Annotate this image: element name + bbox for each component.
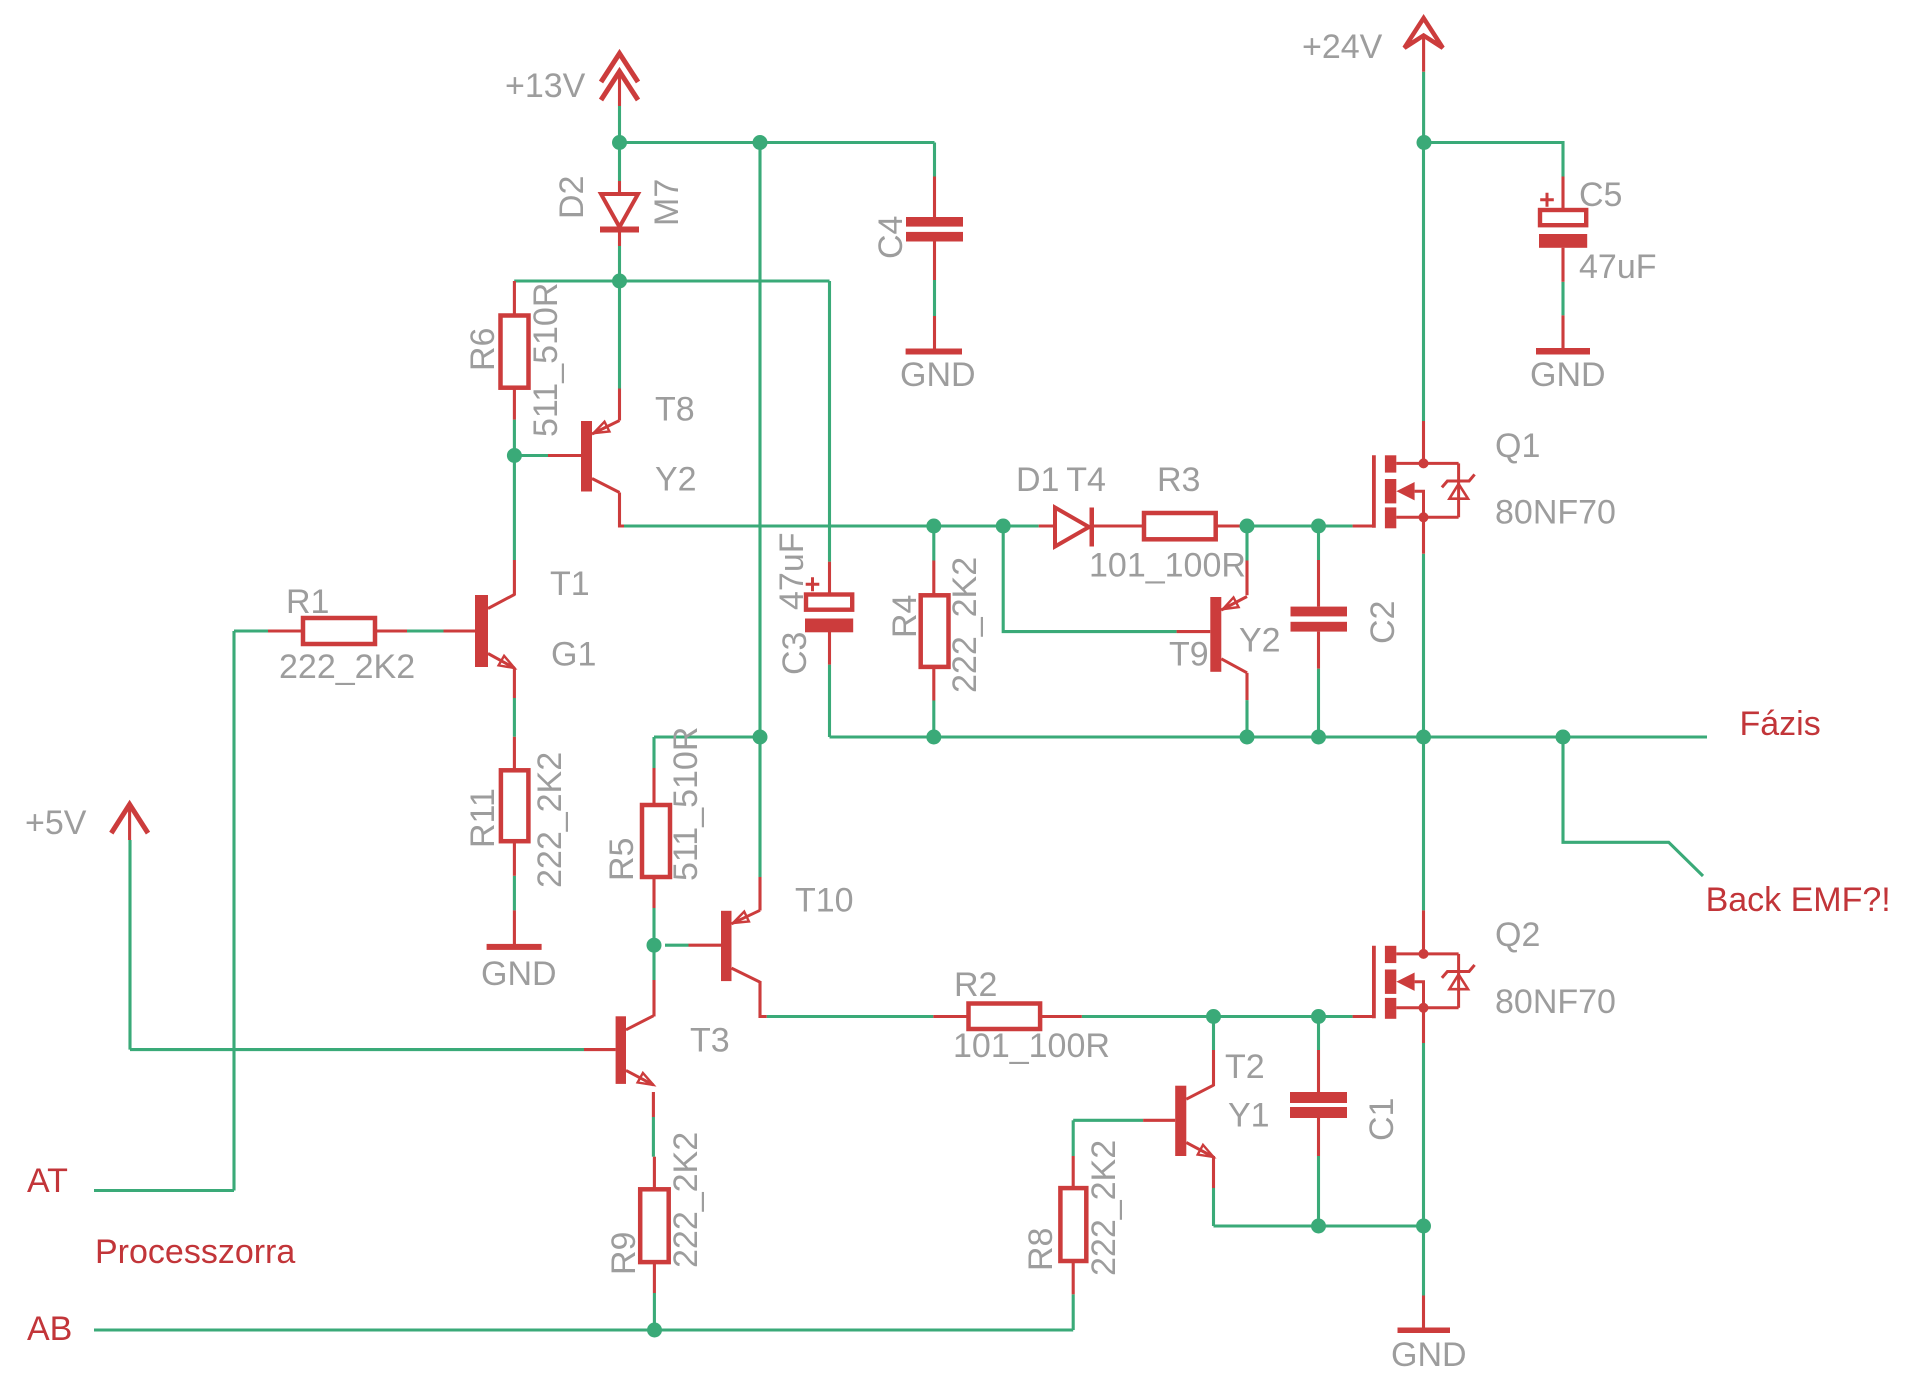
- svg-text:G1: G1: [551, 636, 596, 674]
- pin +13V arrow tail: [618, 72, 621, 106]
- pin D1 anode: [1039, 524, 1055, 527]
- mosfet Q2 (80NF70): [1372, 946, 1376, 1019]
- resistor R4: [921, 595, 949, 667]
- ground bottom (Q2 source): [1398, 1328, 1451, 1334]
- wire T3 emitter: [652, 1117, 655, 1157]
- wire T9 emitter: [1245, 526, 1248, 561]
- wire gate drive Q1 left: [624, 524, 1039, 527]
- wire C2 bottom: [1317, 669, 1320, 737]
- svg-text:222_2K2: 222_2K2: [279, 648, 415, 686]
- capacitor C4: [906, 217, 963, 227]
- svg-text:Y1: Y1: [1228, 1096, 1270, 1134]
- pin C2 bottom: [1317, 632, 1320, 669]
- wire R4 bottom: [932, 701, 935, 738]
- pin Q1 source: [1422, 517, 1425, 553]
- pin Q2 drain: [1422, 910, 1425, 954]
- capacitor C1: [1290, 1092, 1347, 1103]
- capacitor C2: [1291, 607, 1348, 617]
- wire +5V tail: [128, 840, 131, 1050]
- wire +13V supply tail: [618, 106, 621, 143]
- wire Q1 source drop: [1422, 554, 1425, 737]
- pin R11 top: [513, 737, 516, 771]
- pin Q1 gate: [1353, 524, 1372, 527]
- pin T8 base: [548, 454, 581, 457]
- pin C1 bottom: [1317, 1118, 1320, 1156]
- svg-text:511_510R: 511_510R: [667, 727, 705, 881]
- svg-text:222_2K2: 222_2K2: [946, 557, 984, 693]
- svg-text:+13V: +13V: [505, 67, 586, 105]
- ground under C5: [1536, 348, 1590, 355]
- transistor T2 (Y1) NPN: [1175, 1086, 1186, 1156]
- ground under C4: [906, 349, 962, 355]
- supply +24V arrow: [1404, 18, 1442, 48]
- wire AT riser to R1: [232, 631, 235, 1191]
- svg-text:C1: C1: [1363, 1098, 1401, 1141]
- pin T2 emitter: [1212, 1156, 1215, 1188]
- wire gate drive Q2 right: [1082, 1015, 1353, 1018]
- wire +5V to T3 base: [130, 1048, 584, 1051]
- pin T9 emitter: [1245, 561, 1248, 596]
- wire C2 top: [1317, 526, 1320, 560]
- svg-text:R11: R11: [464, 788, 502, 848]
- pin R6 top: [513, 281, 516, 316]
- svg-text:222_2K2: 222_2K2: [667, 1132, 705, 1268]
- wire Q2 drain riser: [1422, 737, 1425, 910]
- svg-text:80NF70: 80NF70: [1495, 983, 1616, 1021]
- wire bootstrap node: [514, 279, 829, 282]
- svg-text:47uF: 47uF: [1579, 248, 1657, 286]
- pin T8 emitter: [618, 389, 621, 421]
- wire R5 bottom to T3 collector: [652, 908, 655, 980]
- pin R6 bottom: [513, 388, 516, 420]
- svg-text:AT: AT: [27, 1162, 68, 1200]
- svg-text:R9: R9: [605, 1232, 643, 1275]
- pin R5 bottom: [652, 877, 655, 908]
- svg-text:511_510R: 511_510R: [527, 283, 565, 437]
- wire T1 emitter to R11: [513, 698, 516, 737]
- junction R4 bottom: [926, 730, 941, 745]
- svg-text:R5: R5: [603, 838, 641, 881]
- diode D2 (M7): [601, 194, 638, 227]
- pin T9 base: [1177, 630, 1211, 633]
- transistor T3 NPN: [616, 1016, 626, 1084]
- wire gate drive Q1 right: [1247, 524, 1353, 527]
- pin Q2 gate: [1353, 1015, 1372, 1018]
- junction Q2 source node: [1416, 1219, 1431, 1234]
- pin T10 collector: [760, 981, 767, 1017]
- pin R11 gnd: [513, 910, 516, 944]
- pin T2 base: [1143, 1119, 1175, 1122]
- junction C2 top node: [1311, 519, 1326, 534]
- wire T2 base: [1073, 1119, 1143, 1122]
- junction C1 top node: [1311, 1009, 1326, 1024]
- pin C1 top: [1317, 1050, 1320, 1092]
- pin T3 collector: [652, 980, 655, 1017]
- pin C4 top: [933, 177, 936, 218]
- wire GND drop bottom: [1422, 1226, 1425, 1296]
- pin C5 top: [1561, 177, 1564, 211]
- resistor R2: [969, 1004, 1041, 1030]
- svg-text:222_2K2: 222_2K2: [531, 752, 569, 888]
- wire AB net: [94, 1328, 1073, 1331]
- svg-text:C5: C5: [1579, 176, 1622, 214]
- pin Q2 source: [1422, 1008, 1425, 1043]
- wire C1 bottom: [1317, 1156, 1320, 1226]
- wire AT net: [94, 1189, 234, 1192]
- junction R9 on AB: [647, 1323, 662, 1338]
- svg-text:D2: D2: [553, 176, 591, 219]
- pin T10 emitter: [758, 877, 761, 911]
- junction D1 anode: [996, 519, 1011, 534]
- junction +13V rail left: [612, 135, 627, 150]
- wire +13V vertical branch: [758, 143, 761, 878]
- wire R1 left: [234, 629, 268, 632]
- pin R2 left: [933, 1015, 968, 1018]
- svg-text:GND: GND: [481, 955, 557, 993]
- pin T8 collector: [620, 493, 625, 527]
- svg-text:R4: R4: [886, 595, 924, 638]
- junction T3 collector node: [647, 938, 662, 953]
- transistor T8 (Y2) PNP: [581, 421, 592, 492]
- svg-text:C4: C4: [872, 216, 910, 259]
- svg-text:AB: AB: [27, 1310, 72, 1348]
- wire R8 bottom riser: [1072, 1294, 1075, 1330]
- supply +13V arrow: [601, 54, 638, 83]
- wire C3 bottom: [828, 665, 831, 737]
- svg-text:Fázis: Fázis: [1740, 705, 1821, 743]
- svg-text:Processzorra: Processzorra: [95, 1233, 295, 1271]
- transistor T9 (Y2) PNP: [1210, 597, 1221, 672]
- svg-text:M7: M7: [648, 179, 686, 226]
- wire +13V rail: [620, 141, 935, 144]
- svg-text:Back EMF?!: Back EMF?!: [1706, 881, 1891, 919]
- pin T9 collector: [1245, 673, 1248, 700]
- junction R3 out: [1240, 519, 1255, 534]
- wire Fazis net: [830, 735, 1708, 738]
- pin R9 bottom: [653, 1262, 656, 1293]
- svg-text:GND: GND: [900, 356, 976, 394]
- wire C4 top drop: [933, 143, 936, 177]
- svg-text:C2: C2: [1364, 601, 1402, 644]
- pin C3 bottom: [828, 632, 831, 665]
- capacitor C3 (electrolytic 47uF): [806, 595, 852, 610]
- junction T2 collector node: [1206, 1009, 1221, 1024]
- svg-text:D1 T4: D1 T4: [1016, 461, 1106, 499]
- wire R4 top: [932, 531, 935, 561]
- wire T8 base: [514, 454, 548, 457]
- svg-text:+24V: +24V: [1302, 28, 1383, 66]
- wire T10 collector run: [767, 1015, 934, 1018]
- wire R6 bottom to T1 collector: [513, 420, 516, 560]
- pin D2 cathode: [618, 232, 621, 246]
- pin C3 top: [828, 562, 831, 595]
- pin T3 emitter: [652, 1092, 655, 1117]
- pin R8 bottom: [1072, 1261, 1075, 1294]
- svg-text:80NF70: 80NF70: [1495, 494, 1616, 532]
- wire C1 top: [1317, 1017, 1320, 1051]
- junction +13V rail mid: [753, 135, 768, 150]
- pin T1 base: [444, 629, 476, 632]
- junction Q1 source node: [1416, 730, 1431, 745]
- pin R4 bottom: [932, 667, 935, 701]
- svg-text:C3: C3: [776, 632, 814, 675]
- resistor R6: [501, 316, 529, 388]
- wire D2 anode net: [618, 143, 621, 182]
- svg-text:Q2: Q2: [1495, 916, 1540, 954]
- wire R11 to GND: [513, 876, 516, 911]
- svg-text:47uF: 47uF: [773, 533, 811, 611]
- svg-text:Y2: Y2: [1239, 622, 1281, 660]
- pin +5V arrow tail: [128, 808, 131, 840]
- wire Back EMF stub: [1563, 737, 1703, 876]
- resistor R3: [1144, 513, 1216, 539]
- pin T1 emitter: [513, 668, 516, 699]
- junction +13V branch: [753, 730, 768, 745]
- svg-text:Y2: Y2: [655, 461, 697, 499]
- svg-text:GND: GND: [1530, 356, 1606, 394]
- resistor R8: [1060, 1188, 1086, 1261]
- wire T2 emitter drop: [1212, 1188, 1215, 1226]
- pin D2 anode: [618, 181, 621, 194]
- junction +24V rail: [1417, 135, 1432, 150]
- ground under R11: [487, 944, 542, 950]
- svg-text:R6: R6: [464, 328, 502, 371]
- resistor R9: [640, 1189, 669, 1262]
- svg-text:T9: T9: [1169, 635, 1209, 673]
- svg-text:101_100R: 101_100R: [1089, 547, 1246, 585]
- resistor R11: [501, 770, 529, 841]
- pin T1 collector: [513, 560, 516, 596]
- pin R1 right: [375, 629, 407, 632]
- pin C5 bottom: [1561, 248, 1564, 282]
- svg-text:R8: R8: [1022, 1228, 1060, 1271]
- svg-text:+5V: +5V: [25, 804, 87, 842]
- pin T3 base: [584, 1048, 616, 1051]
- capacitor C5 (electrolytic 47uF): [1540, 210, 1586, 225]
- pin T10 base: [689, 944, 722, 947]
- svg-text:R1: R1: [286, 583, 329, 621]
- svg-text:T2: T2: [1225, 1048, 1265, 1086]
- diode D1 (T4): [1055, 508, 1089, 547]
- wire +13V branch left Fazis row: [654, 735, 760, 738]
- svg-text:222_2K2: 222_2K2: [1085, 1140, 1123, 1276]
- wire C4 bottom: [933, 280, 936, 316]
- wire C5 to GND: [1561, 282, 1564, 316]
- pin R5 top: [652, 768, 655, 805]
- pin D1 cathode to R3: [1093, 524, 1144, 527]
- pin GND bottom: [1422, 1296, 1425, 1328]
- svg-text:101_100R: 101_100R: [953, 1027, 1110, 1065]
- wire Q1 drain riser: [1422, 143, 1425, 422]
- wire R5 top bend: [652, 737, 655, 768]
- wire T9 collector: [1245, 700, 1248, 737]
- pin R9 top: [653, 1157, 656, 1190]
- wire T9 base drop: [1003, 526, 1176, 632]
- wire R1 to T1 base: [407, 629, 444, 632]
- pin R3 right: [1216, 524, 1247, 527]
- junction C1 bottom node: [1311, 1219, 1326, 1234]
- transistor T10 PNP: [721, 911, 732, 981]
- svg-text:Q1: Q1: [1495, 427, 1540, 465]
- junction Back EMF tap: [1556, 730, 1571, 745]
- svg-text:GND: GND: [1391, 1336, 1467, 1374]
- mosfet Q1 (80NF70): [1372, 455, 1376, 528]
- supply +5V arrow: [111, 804, 148, 833]
- svg-text:T8: T8: [655, 391, 695, 429]
- pin R2 right: [1040, 1015, 1082, 1018]
- wire C3 top riser: [828, 281, 831, 562]
- junction D2 cathode: [612, 274, 627, 289]
- pin C2 top: [1317, 560, 1320, 607]
- wire source bottom bus: [1214, 1224, 1424, 1227]
- resistor R1: [303, 618, 375, 644]
- pin R4 top: [932, 561, 935, 596]
- pin T2 collector: [1212, 1050, 1215, 1086]
- wire +24V tail: [1422, 72, 1425, 143]
- pin C4 gnd: [933, 316, 936, 349]
- wire +24V to C5: [1424, 143, 1563, 177]
- transistor T1 (G1) NPN: [475, 595, 488, 667]
- pin C5 gnd: [1561, 315, 1564, 348]
- junction R4 gate node: [926, 519, 941, 534]
- wire T10 base: [665, 944, 689, 947]
- svg-text:T10: T10: [795, 882, 854, 920]
- pin R11 bottom: [513, 841, 516, 876]
- svg-text:R3: R3: [1157, 461, 1200, 499]
- pin C4 bottom: [933, 241, 936, 281]
- pin R8 top: [1072, 1156, 1075, 1188]
- svg-text:T3: T3: [690, 1021, 730, 1059]
- wire Q2 source drop: [1422, 1043, 1425, 1226]
- junction T9 collector: [1240, 730, 1255, 745]
- junction T8 base node: [507, 448, 522, 463]
- resistor R5: [642, 805, 670, 877]
- wire T2 collector: [1212, 1017, 1215, 1051]
- wire D2 cathode / T8 emitter: [618, 246, 621, 389]
- pin R1 left: [268, 629, 303, 632]
- junction C2 bottom: [1311, 730, 1326, 745]
- pin Q1 drain: [1422, 421, 1425, 463]
- wire R9 bottom: [653, 1293, 656, 1330]
- svg-text:R2: R2: [954, 966, 997, 1004]
- svg-text:T1: T1: [550, 565, 590, 603]
- pin +24V arrow tail: [1422, 38, 1425, 72]
- wire R8 top riser: [1072, 1120, 1075, 1156]
